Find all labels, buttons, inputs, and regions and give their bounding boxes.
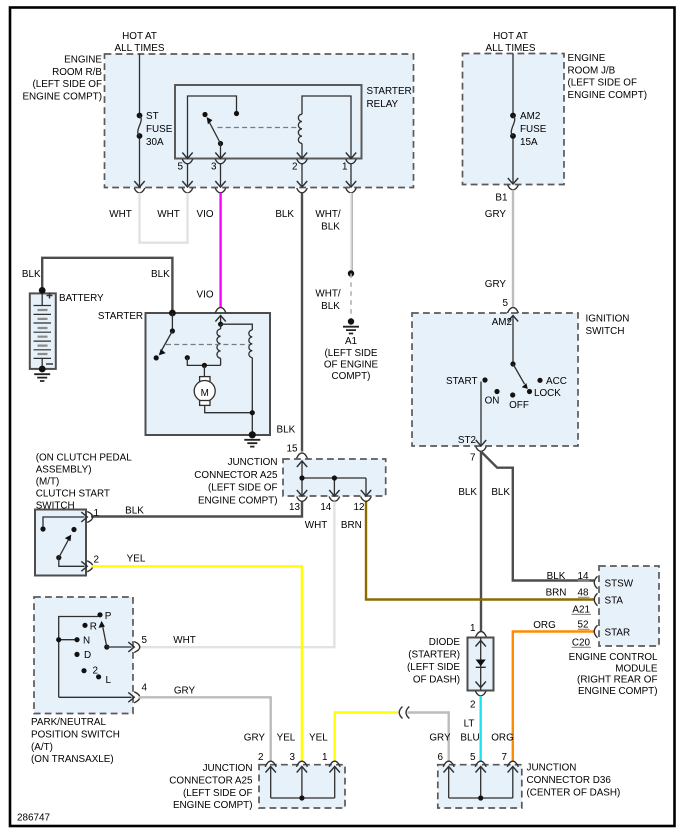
svg-text:BLK: BLK [491, 487, 510, 498]
junction connector A25 bottom box [259, 765, 345, 808]
svg-text:1: 1 [322, 752, 328, 763]
svg-text:WHT/: WHT/ [315, 289, 340, 300]
svg-text:A1: A1 [345, 336, 358, 347]
svg-text:GRY: GRY [485, 279, 507, 290]
motor M [203, 365, 205, 376]
wire GRY inline connector to D36 pin6 [408, 713, 449, 763]
ignition switch arm [513, 364, 525, 384]
relay coil [298, 114, 302, 143]
starter internal ground wire [251, 358, 253, 435]
relay pin 3 [215, 153, 225, 159]
svg-text:D: D [84, 650, 91, 661]
pin 12 [361, 497, 372, 502]
starter contact node [185, 355, 190, 360]
diode box [468, 638, 494, 691]
junction connector A25 box [283, 459, 386, 496]
starter M1 box [146, 313, 271, 435]
svg-text:N: N [83, 636, 90, 647]
clutch pin 2 [81, 561, 87, 571]
svg-text:2: 2 [94, 555, 100, 566]
svg-text:BLK: BLK [125, 506, 144, 517]
svg-text:WHT: WHT [305, 520, 327, 531]
svg-text:ACC: ACC [546, 376, 567, 387]
svg-text:5: 5 [142, 635, 148, 646]
P/N pin 5 [128, 642, 134, 652]
svg-text:JUNCTION: JUNCTION [228, 457, 278, 468]
svg-text:7: 7 [502, 752, 508, 763]
svg-text:WHT: WHT [173, 635, 195, 646]
relay dashed link [218, 127, 300, 129]
svg-text:ST: ST [146, 111, 159, 122]
wire BLK A25 pin13 to clutch pin1 [91, 502, 302, 517]
svg-text:2: 2 [93, 666, 99, 677]
svg-text:ENGINE COMPT): ENGINE COMPT) [578, 686, 658, 697]
relay pin 5 [182, 153, 192, 159]
svg-text:15: 15 [287, 444, 298, 455]
svg-text:(CENTER OF DASH): (CENTER OF DASH) [527, 788, 621, 799]
svg-text:CLUTCH START: CLUTCH START [36, 489, 110, 500]
svg-text:13: 13 [289, 502, 300, 513]
starter dashed link [166, 344, 249, 346]
wire BLK ST2 to diode [480, 452, 482, 632]
svg-text:(ON CLUTCH PEDAL: (ON CLUTCH PEDAL [36, 453, 133, 464]
pin 13 [297, 497, 308, 502]
svg-text:(A/T): (A/T) [31, 742, 53, 753]
svg-text:(LEFT SIDE: (LEFT SIDE [407, 662, 460, 673]
svg-text:OF ENGINE: OF ENGINE [324, 359, 379, 370]
svg-text:(LEFT SIDE OF: (LEFT SIDE OF [568, 78, 638, 89]
wire BLK relay pin2 to junction A25 pin15 [301, 193, 303, 452]
svg-text:(RIGHT REAR OF: (RIGHT REAR OF [577, 675, 657, 686]
svg-text:7: 7 [470, 453, 476, 464]
P/N internals [59, 617, 98, 698]
relay switch arm [218, 141, 223, 146]
svg-text:286747: 286747 [17, 813, 50, 824]
svg-text:STARTER: STARTER [98, 311, 143, 322]
wire BLK battery to starter [42, 258, 172, 312]
svg-text:(LEFT SIDE OF: (LEFT SIDE OF [32, 79, 102, 90]
svg-text:15A: 15A [520, 137, 538, 148]
svg-text:30A: 30A [146, 137, 164, 148]
svg-text:4: 4 [142, 683, 148, 694]
svg-text:START: START [446, 376, 477, 387]
svg-text:WHT/: WHT/ [315, 209, 340, 220]
svg-text:ENGINE COMPT): ENGINE COMPT) [568, 90, 648, 101]
relay open contact [202, 112, 207, 117]
svg-text:ENGINE: ENGINE [64, 55, 102, 66]
svg-text:BLK: BLK [151, 269, 170, 280]
svg-text:2: 2 [470, 700, 476, 711]
svg-text:1: 1 [470, 623, 476, 634]
starter switch [171, 313, 173, 331]
relay contact feed wire [188, 96, 237, 159]
svg-text:BRN: BRN [546, 588, 567, 599]
engine room R/B box [105, 54, 414, 188]
svg-text:(LEFT SIDE: (LEFT SIDE [324, 348, 377, 359]
junction connector D36 box [438, 765, 522, 808]
svg-text:CONNECTOR D36: CONNECTOR D36 [527, 775, 612, 786]
clutch start switch box [35, 510, 86, 576]
P/N pin 4 [128, 692, 134, 702]
fuse AM2 15A [510, 113, 516, 119]
svg-text:AM2: AM2 [492, 317, 512, 328]
starter pull-in coil [217, 329, 221, 358]
svg-text:HOT AT: HOT AT [493, 31, 528, 42]
svg-text:BLK: BLK [277, 425, 296, 436]
svg-text:POSITION SWITCH: POSITION SWITCH [31, 729, 120, 740]
svg-text:IGNITION: IGNITION [586, 314, 630, 325]
svg-text:ALL TIMES: ALL TIMES [486, 43, 536, 54]
wire hot feed to fuse [139, 54, 141, 114]
svg-text:1: 1 [342, 162, 348, 173]
svg-text:LT: LT [464, 719, 475, 730]
wire BRN junction A25 pin12 to ECM STA [366, 502, 594, 600]
starter relay U1 box [175, 85, 362, 159]
svg-text:GRY: GRY [429, 732, 451, 743]
svg-text:OF DASH): OF DASH) [413, 675, 460, 686]
wire hot feed to fuse AM2 [512, 54, 514, 114]
svg-text:JUNCTION: JUNCTION [203, 763, 253, 774]
svg-text:2: 2 [292, 162, 298, 173]
relay fixed contact [234, 111, 239, 116]
svg-text:RELAY: RELAY [367, 99, 399, 110]
engine room J/B box [463, 54, 565, 185]
svg-text:ST2: ST2 [458, 435, 476, 446]
svg-text:3: 3 [211, 162, 217, 173]
pin 2 [475, 691, 486, 696]
wire BLK ST2 to ECM STSW [481, 452, 594, 581]
svg-text:CONNECTOR A25: CONNECTOR A25 [169, 775, 253, 786]
ground A1 [348, 318, 354, 324]
svg-text:12: 12 [354, 502, 365, 513]
svg-text:STA: STA [605, 596, 624, 607]
svg-text:GRY: GRY [174, 686, 196, 697]
svg-text:P: P [105, 611, 112, 622]
svg-text:FUSE: FUSE [146, 124, 173, 135]
svg-text:5: 5 [503, 298, 509, 309]
svg-text:1: 1 [94, 508, 100, 519]
svg-text:(STARTER): (STARTER) [408, 650, 460, 661]
svg-text:(M/T): (M/T) [36, 477, 60, 488]
svg-text:BLK: BLK [547, 571, 566, 582]
wire GRY P/N pin4 to A25 pin2 [139, 697, 271, 762]
svg-text:YEL: YEL [277, 732, 296, 743]
svg-text:GRY: GRY [244, 732, 266, 743]
svg-text:COMPT): COMPT) [332, 371, 371, 382]
svg-text:ROOM R/B: ROOM R/B [52, 67, 102, 78]
wire LT BLU diode to D36 pin5 [480, 696, 482, 762]
svg-text:STARTER: STARTER [367, 86, 412, 97]
A25 internal bus [297, 461, 307, 467]
fuse ST 30A [137, 113, 143, 119]
svg-text:ON: ON [485, 396, 500, 407]
starter BLK entry node [169, 310, 176, 317]
svg-text:GRY: GRY [485, 209, 507, 220]
wire ORG ECM STAR to D36 pin7 [513, 632, 594, 763]
svg-text:ENGINE COMPT): ENGINE COMPT) [22, 91, 102, 102]
svg-text:ASSEMBLY): ASSEMBLY) [36, 465, 92, 476]
svg-text:BLU: BLU [460, 732, 479, 743]
wire WHT fuse to relay pin5 [140, 193, 188, 243]
svg-text:BLK: BLK [321, 221, 340, 232]
svg-text:JUNCTION: JUNCTION [527, 763, 577, 774]
battery [30, 293, 56, 369]
svg-text:WHT: WHT [157, 209, 179, 220]
inline connector [399, 707, 402, 719]
svg-text:HOT AT: HOT AT [122, 31, 157, 42]
wire YEL A25 pin1 to inline connector [335, 713, 398, 763]
svg-text:BATTERY: BATTERY [59, 293, 104, 304]
clutch switch internals [43, 517, 85, 529]
svg-text:OFF: OFF [509, 400, 529, 411]
P/N switch arm [104, 644, 109, 649]
wire GRY B1 to ignition switch [512, 190, 514, 307]
svg-text:YEL: YEL [309, 732, 328, 743]
svg-text:BLK: BLK [458, 487, 477, 498]
svg-text:ENGINE CONTROL: ENGINE CONTROL [569, 652, 658, 663]
svg-text:LOCK: LOCK [534, 388, 561, 399]
svg-text:ALL TIMES: ALL TIMES [115, 43, 165, 54]
wire WHT/BLK relay pin1 to ground A1 [350, 193, 352, 274]
svg-text:R: R [90, 622, 97, 633]
svg-text:(LEFT SIDE OF: (LEFT SIDE OF [183, 788, 253, 799]
svg-text:BRN: BRN [341, 520, 362, 531]
wire YEL clutch pin2 to A25 pin3 [92, 566, 302, 762]
relay pin 1 [346, 153, 356, 159]
svg-text:14: 14 [320, 502, 331, 513]
ignition switch box [412, 313, 578, 446]
clutch pin 1 [81, 512, 87, 522]
svg-text:(LEFT SIDE OF: (LEFT SIDE OF [208, 483, 278, 494]
ECM box [599, 566, 659, 646]
svg-text:DIODE: DIODE [429, 637, 461, 648]
svg-text:B1: B1 [495, 193, 508, 204]
D36 internal bus [449, 767, 513, 799]
starter solenoid wiring [221, 324, 253, 330]
svg-text:YEL: YEL [127, 554, 146, 565]
wire fuse to box edge [139, 139, 141, 186]
svg-text:VIO: VIO [196, 290, 213, 301]
svg-text:5: 5 [470, 752, 476, 763]
svg-text:SWITCH: SWITCH [586, 326, 625, 337]
wire WHT A25 pin14 to P/N pin5 [140, 502, 334, 648]
svg-text:STAR: STAR [605, 628, 631, 639]
svg-text:ENGINE COMPT): ENGINE COMPT) [198, 495, 278, 506]
svg-text:CONNECTOR A25: CONNECTOR A25 [194, 470, 278, 481]
diode D1 internals [480, 638, 482, 691]
svg-text:AM2: AM2 [520, 111, 540, 122]
wire VIO relay pin3 to starter [219, 193, 221, 307]
svg-text:(ON TRANSAXLE): (ON TRANSAXLE) [31, 754, 114, 765]
svg-text:ORG: ORG [491, 732, 514, 743]
wire START to ST2 [480, 382, 482, 445]
svg-text:ENGINE COMPT): ENGINE COMPT) [173, 800, 253, 811]
svg-text:MODULE: MODULE [615, 663, 658, 674]
svg-text:M: M [201, 388, 209, 399]
battery ground [39, 366, 46, 373]
svg-text:FUSE: FUSE [520, 124, 547, 135]
svg-text:3: 3 [290, 752, 296, 763]
starter hold-in coil [249, 330, 252, 358]
svg-text:STSW: STSW [605, 579, 634, 590]
svg-text:BLK: BLK [22, 269, 41, 280]
svg-text:ORG: ORG [533, 620, 556, 631]
wire fuse to box edge pin B1 [512, 139, 514, 183]
svg-text:5: 5 [178, 162, 184, 173]
svg-text:2: 2 [258, 752, 264, 763]
park/neutral position switch box [34, 597, 133, 714]
A25 bottom internal bus [271, 767, 335, 799]
svg-text:ROOM J/B: ROOM J/B [568, 65, 616, 76]
svg-text:6: 6 [438, 752, 444, 763]
svg-text:L: L [106, 675, 112, 686]
svg-text:BLK: BLK [275, 209, 294, 220]
pin 14 [329, 497, 340, 502]
ignition feed wire [512, 316, 514, 365]
svg-text:WHT: WHT [109, 209, 131, 220]
svg-text:PARK/NEUTRAL: PARK/NEUTRAL [31, 717, 106, 728]
relay pin 2 [297, 153, 307, 159]
starter VIO entry [215, 307, 226, 313]
pin drop wires to box edge [187, 164, 189, 186]
svg-text:BLK: BLK [321, 301, 340, 312]
ignition contacts [482, 377, 487, 382]
svg-text:ENGINE: ENGINE [568, 53, 606, 64]
svg-text:VIO: VIO [196, 209, 213, 220]
starter ground [249, 431, 256, 438]
